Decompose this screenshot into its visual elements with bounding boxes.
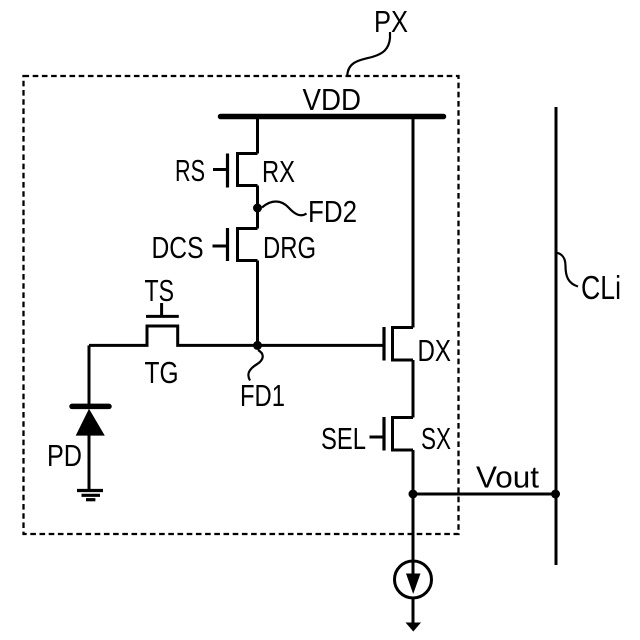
wire VDD to RX drain <box>256 114 259 154</box>
wire Vout to column line <box>413 493 556 496</box>
svg-text:PD: PD <box>47 438 82 473</box>
ground <box>77 489 103 492</box>
leader from PX to box <box>347 32 390 76</box>
svg-text:FD1: FD1 <box>240 378 285 413</box>
current source circle <box>395 561 432 598</box>
leader FD1 <box>248 350 262 381</box>
svg-text:Vout: Vout <box>476 460 539 495</box>
node FD2 <box>253 204 262 213</box>
svg-text:DX: DX <box>418 333 452 368</box>
svg-text:SX: SX <box>421 421 451 456</box>
svg-text:CLi: CLi <box>581 269 621 306</box>
svg-text:DCS: DCS <box>152 230 204 265</box>
svg-text:FD2: FD2 <box>308 194 357 229</box>
node on column line <box>551 490 560 499</box>
leader CLi <box>556 253 578 287</box>
node FD1 <box>253 341 262 350</box>
wire FD1 row with TG bump, from PD column to DX gate bar <box>89 326 384 345</box>
svg-text:TS: TS <box>145 273 175 308</box>
SX gate lead <box>370 436 385 439</box>
leader FD2 <box>262 202 307 216</box>
wire VDD to DX drain <box>412 114 415 328</box>
RX gate lead <box>213 168 228 171</box>
wire DX to SX <box>412 360 415 418</box>
DRG gate bar <box>226 228 229 261</box>
transistor RX <box>238 154 258 186</box>
current source arrow head <box>406 574 421 595</box>
transistor SX <box>393 418 414 451</box>
wire SX to output node <box>412 450 415 494</box>
transistor DRG <box>238 229 258 261</box>
TG gate lead tick <box>160 303 163 316</box>
svg-text:VDD: VDD <box>303 82 362 117</box>
RX gate bar <box>226 154 229 188</box>
wire RX to DRG <box>256 186 259 229</box>
wire PD to ground <box>88 434 91 490</box>
VDD rail <box>221 114 444 120</box>
svg-text:RX: RX <box>262 154 295 189</box>
wire FD1 row down to photodiode <box>88 345 91 404</box>
DRG gate lead <box>213 245 228 248</box>
column line CLi <box>555 107 558 565</box>
svg-text:SEL: SEL <box>321 421 366 456</box>
pixel boundary dashed box PX <box>24 76 459 534</box>
wire current source to arrow <box>412 598 415 623</box>
svg-text:TG: TG <box>145 355 179 390</box>
svg-text:DRG: DRG <box>263 230 316 265</box>
wire DRG to FD1 node <box>256 261 259 346</box>
DX gate bar <box>382 327 385 361</box>
svg-text:PX: PX <box>374 4 408 39</box>
transistor DX <box>393 328 414 361</box>
arrow terminal <box>406 623 422 632</box>
photodiode PD cathode bar <box>72 404 109 410</box>
svg-text:RS: RS <box>175 153 205 188</box>
node Vout <box>409 490 418 499</box>
transistor TG gate bar <box>146 315 179 318</box>
SX gate bar <box>382 417 385 451</box>
photodiode PD triangle <box>76 409 105 436</box>
wire node to current source <box>412 494 415 576</box>
